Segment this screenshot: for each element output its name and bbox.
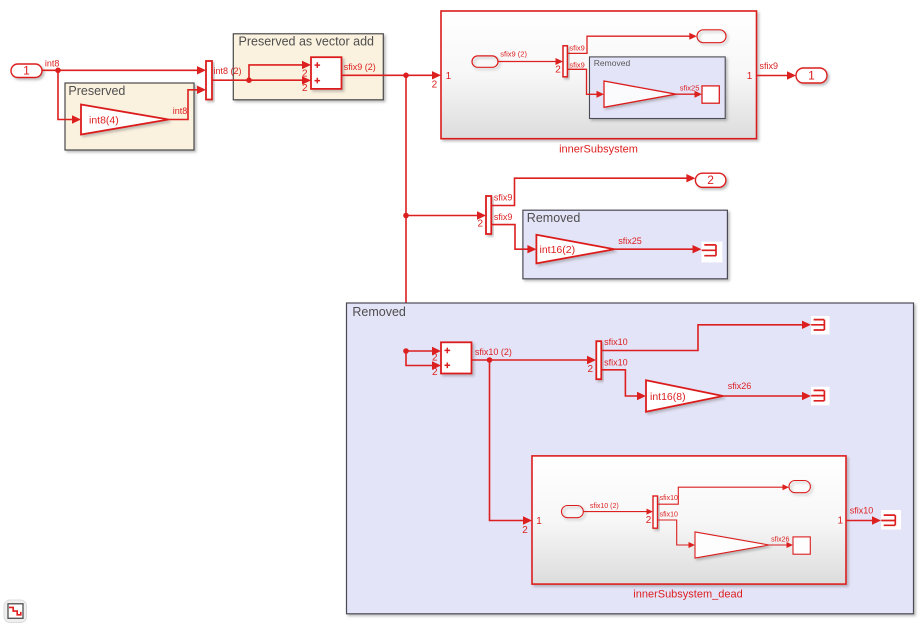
svg-text:2: 2 (432, 367, 438, 378)
svg-text:1: 1 (747, 71, 753, 82)
svg-text:1: 1 (808, 69, 815, 83)
svg-text:2: 2 (707, 173, 714, 187)
inport oval (inside innerSubsystem) (472, 56, 498, 67)
svg-text:sfix10: sfix10 (604, 357, 628, 367)
svg-text:2: 2 (646, 515, 652, 526)
wire: G4 output to small square (769, 537, 793, 549)
demux D3 (596, 341, 601, 379)
svg-text:sfix9 (2): sfix9 (2) (344, 62, 376, 72)
wire: G3 output to terminator T3 (723, 381, 811, 400)
demux D2 (486, 196, 491, 234)
svg-text:sfix26: sfix26 (771, 537, 789, 544)
wire: junction down into Preserved gain (58, 70, 81, 123)
svg-text:sfix9: sfix9 (494, 192, 513, 202)
svg-text:sfix25: sfix25 (618, 236, 642, 246)
wire: Demux3 bottom to gain G3 (601, 357, 646, 400)
gain G1 int8(4) (81, 105, 169, 135)
terminator T3 (811, 387, 830, 406)
svg-text:2: 2 (477, 218, 483, 229)
node: junction at In1 branch (55, 68, 61, 74)
gain GA (inside inner Removed, unlabeled) (604, 81, 676, 107)
svg-text:1: 1 (446, 71, 452, 82)
area box: Removed (middle) (523, 210, 728, 279)
svg-text:int8(4): int8(4) (89, 115, 119, 127)
area box: Preserved as vector add (233, 34, 383, 100)
svg-text:sfix10: sfix10 (604, 337, 628, 347)
wire: vertical trunk down (405, 75, 407, 351)
svg-text:sfix10 (2): sfix10 (2) (590, 503, 619, 510)
area box: Removed (bottom large) (347, 303, 914, 614)
svg-text:1: 1 (837, 515, 843, 526)
wire: DemuxA top to inner oval out (567, 33, 696, 54)
svg-text:sfix10: sfix10 (660, 495, 678, 502)
wire: junction down to innerSubsystem_dead (490, 360, 533, 525)
sum Add1 (311, 57, 342, 89)
svg-text:sfix9: sfix9 (569, 60, 584, 69)
area box: Removed (inside innerSubsystem) (590, 57, 726, 119)
wire: DemuxA bottom into inner Removed gain (567, 60, 604, 97)
node: junction on Add2 output (487, 357, 493, 363)
svg-text:2: 2 (302, 83, 308, 94)
svg-text:int16(8): int16(8) (650, 391, 686, 403)
wire: Demux3 top to terminator T2 (601, 321, 811, 351)
wire: In1 to Mux top input (43, 58, 207, 74)
inport oval (inside dead) (562, 506, 584, 518)
wire: Demux4 bottom to gain G4 (658, 512, 696, 548)
svg-text:sfix9: sfix9 (494, 212, 513, 222)
terminator T4 (881, 510, 901, 530)
node: junction at Add2 inputs (403, 348, 409, 354)
svg-text:sfix10: sfix10 (660, 512, 678, 519)
area box: Preserved (65, 83, 194, 150)
svg-text:2: 2 (432, 79, 438, 90)
node: junction below Add1 output (403, 73, 409, 79)
svg-text:Removed: Removed (527, 211, 581, 225)
svg-text:innerSubsystem: innerSubsystem (559, 144, 638, 156)
demux D4 (inside dead) (653, 496, 658, 528)
subsystem innerSubsystem (441, 11, 757, 156)
svg-text:1: 1 (23, 63, 30, 77)
wire: innerSubsystem output to Out1 (757, 61, 797, 80)
outport Out2 (695, 173, 726, 187)
svg-text:int8: int8 (173, 106, 188, 116)
demux DA (inside innerSubsystem) (563, 46, 567, 77)
wire: Add1 output to innerSubsystem (342, 62, 442, 80)
wire: dead oval to Demux4 (583, 503, 653, 526)
node: junction mid trunk (403, 213, 409, 219)
svg-text:int16(2): int16(2) (540, 244, 576, 256)
wire: trunk into big Removed, to Add2 (406, 347, 441, 370)
square block (inside inner Removed) (702, 86, 719, 103)
svg-text:Removed: Removed (594, 58, 631, 68)
terminator T2 (811, 316, 830, 335)
sum Add2 (441, 342, 472, 373)
svg-text:2: 2 (522, 525, 528, 536)
svg-text:innerSubsystem_dead: innerSubsystem_dead (633, 588, 742, 600)
terminator T1 (702, 242, 723, 263)
svg-text:sfix10 (2): sfix10 (2) (475, 347, 512, 357)
square block (inside dead) (793, 537, 810, 554)
wire: Demux2 top to Out2 (491, 174, 695, 206)
svg-text:sfix9: sfix9 (760, 61, 779, 71)
wire: Demux2 bottom into Removed gain (491, 212, 536, 253)
svg-text:Removed: Removed (352, 305, 406, 319)
svg-text:sfix25: sfix25 (680, 83, 700, 92)
svg-text:2: 2 (587, 364, 593, 375)
wire: dead output to terminator T4 (846, 506, 881, 525)
gain G2 int16(2) (536, 235, 614, 264)
outport Out1 (796, 68, 827, 83)
oval port (top-right inside dead) (789, 481, 810, 493)
subsystem innerSubsystem_dead (532, 456, 846, 600)
svg-text:Preserved: Preserved (68, 84, 125, 98)
mux M1 (206, 61, 212, 100)
inport In1 (11, 63, 42, 77)
wire: inner oval to DemuxA (498, 50, 563, 76)
wire: Add2 output to Demux3 (472, 347, 597, 375)
svg-text:2: 2 (302, 68, 308, 79)
wire: gain G1 output up to Mux bottom input (169, 86, 207, 120)
wire: Demux4 top to dead oval out (658, 484, 790, 504)
wire: trunk to Demux2 (406, 211, 486, 229)
gain G3 int16(8) (646, 380, 723, 412)
svg-text:sfix9: sfix9 (569, 43, 584, 52)
wire: G2 output to terminator T1 (614, 236, 701, 254)
svg-text:int8 (2): int8 (2) (214, 66, 242, 76)
gain G4 (inside dead, unlabeled) (695, 532, 769, 558)
node: junction on mux output (246, 77, 252, 83)
svg-text:Preserved as vector add: Preserved as vector add (239, 34, 375, 48)
svg-text:2: 2 (555, 65, 561, 76)
svg-text:sfix10: sfix10 (850, 506, 874, 516)
svg-text:2: 2 (432, 353, 438, 364)
svg-text:sfix26: sfix26 (728, 381, 752, 391)
oval port (top-right inside innerSubsystem) (697, 30, 726, 43)
wire: GA output to small square (676, 83, 702, 97)
svg-text:sfix9 (2): sfix9 (2) (500, 50, 527, 59)
svg-text:int8: int8 (45, 58, 60, 68)
wire: Mux output to Add1 (with branch) (212, 61, 311, 85)
svg-text:1: 1 (536, 516, 542, 527)
toolbar icon: sample time legend (bottom-left) (4, 600, 27, 623)
